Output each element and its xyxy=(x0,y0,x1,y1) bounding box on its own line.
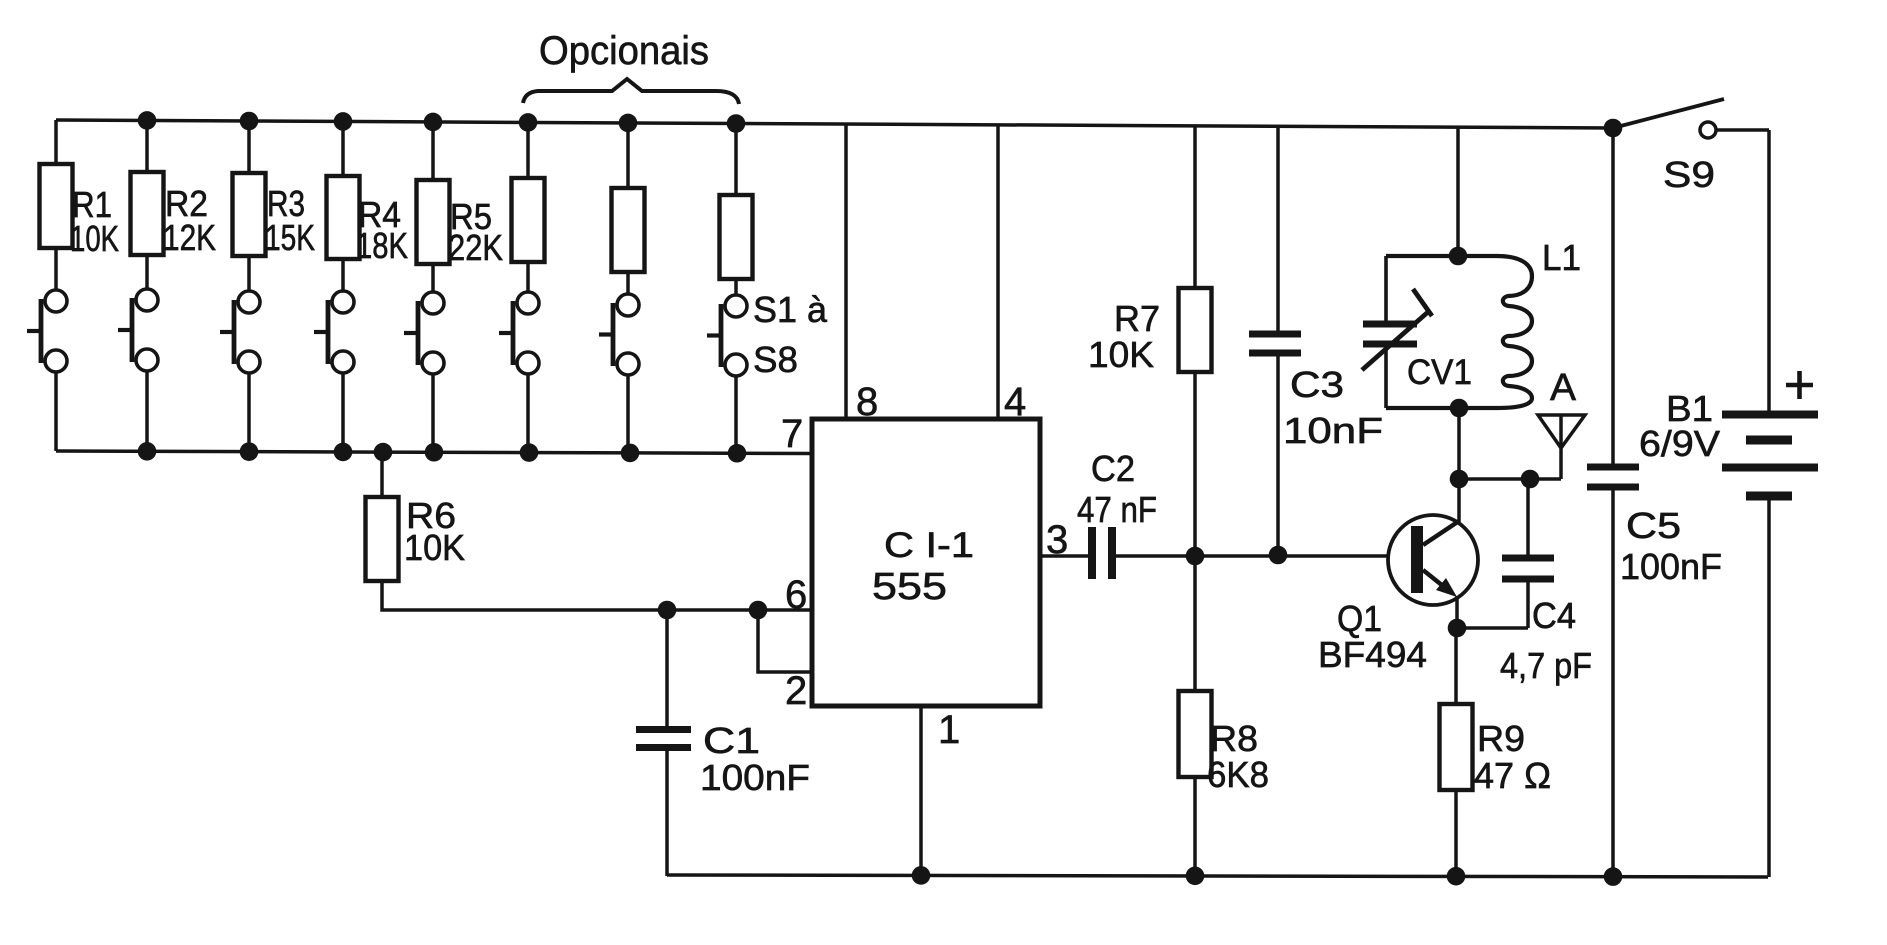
wire C4 top xyxy=(1526,479,1530,556)
label B1 6/9V xyxy=(1639,388,1720,464)
wire C3 to node xyxy=(1276,356,1280,555)
wire switch 2 to common rail xyxy=(145,371,149,451)
antenna A symbol xyxy=(1538,415,1585,479)
svg-text:S1 à: S1 à xyxy=(753,289,828,330)
svg-text:1: 1 xyxy=(938,708,960,752)
svg-text:555: 555 xyxy=(872,566,947,608)
svg-text:C2: C2 xyxy=(1091,448,1135,489)
wire switch 1 to common rail xyxy=(54,372,58,451)
wire battery to ground rail xyxy=(1767,500,1771,877)
svg-text:10K: 10K xyxy=(404,527,465,568)
pin 2 stub wire xyxy=(758,610,812,672)
svg-text:Opcionais: Opcionais xyxy=(539,29,709,73)
svg-text:BF494: BF494 xyxy=(1318,634,1427,675)
wire C4 bottom xyxy=(1526,582,1530,628)
junction dot pin2 tap xyxy=(749,601,768,620)
svg-text:C5: C5 xyxy=(1626,505,1681,546)
svg-text:6/9V: 6/9V xyxy=(1639,423,1720,464)
svg-text:A: A xyxy=(1550,367,1577,409)
junction dot antenna line left xyxy=(1450,470,1469,489)
resistor R3 body xyxy=(233,173,266,256)
junction dot emitter node xyxy=(1448,619,1467,638)
wire top lead column 7 xyxy=(626,123,630,188)
svg-text:C3: C3 xyxy=(1290,364,1344,405)
label CI-1 xyxy=(884,526,974,565)
pushbutton switch S7 xyxy=(599,294,639,375)
svg-text:22K: 22K xyxy=(448,227,503,268)
capacitor C5 plates xyxy=(1587,467,1639,487)
capacitor C4 plates xyxy=(1502,558,1554,579)
label R8 6K8 xyxy=(1207,718,1269,795)
svg-text:C I-1: C I-1 xyxy=(884,526,974,565)
svg-text:18K: 18K xyxy=(356,225,408,266)
pushbutton switch S3 xyxy=(220,291,260,373)
label C3 10nF xyxy=(1283,364,1383,451)
pushbutton switch S5 xyxy=(404,292,444,374)
label Q1 BF494 xyxy=(1318,598,1427,675)
resistor optional column 7 xyxy=(612,188,645,272)
label R4 value xyxy=(356,194,408,266)
pin 8 wire xyxy=(844,124,848,419)
wire R8 to ground xyxy=(1193,777,1197,876)
label R7 10K xyxy=(1088,298,1160,375)
resistor R9 xyxy=(1440,704,1473,790)
svg-text:10K: 10K xyxy=(70,218,119,259)
junction dot C5 ground xyxy=(1604,867,1623,886)
resistor R4 body xyxy=(327,176,360,259)
wire antenna line xyxy=(1459,477,1561,481)
wire tank to collector node xyxy=(1457,408,1461,522)
wire resistor 5 to switch 5 xyxy=(431,264,435,292)
svg-text:100nF: 100nF xyxy=(700,757,810,798)
resistor R1 body xyxy=(40,164,73,248)
svg-text:2: 2 xyxy=(785,669,807,713)
wire switch 3 to common rail xyxy=(247,373,251,452)
label C4 4,7pF xyxy=(1500,595,1592,686)
svg-text:C1: C1 xyxy=(703,720,760,761)
wire rail to R7 xyxy=(1193,126,1197,288)
wire rail to tank xyxy=(1456,127,1460,256)
label R9 47ohm xyxy=(1474,718,1551,796)
wire resistor 4 to switch 4 xyxy=(341,259,345,291)
switch S9 contact xyxy=(1700,122,1716,138)
svg-text:47 Ω: 47 Ω xyxy=(1474,755,1551,796)
label R1 value xyxy=(70,184,119,259)
capacitor C1 plates xyxy=(636,730,691,748)
svg-text:4: 4 xyxy=(1004,380,1026,424)
wire top supply rail xyxy=(56,120,1613,128)
junction dot C3 node xyxy=(1269,546,1288,565)
label CV1 xyxy=(1407,353,1472,392)
label Opcionais xyxy=(539,29,709,73)
wire rail to C5 xyxy=(1611,128,1615,464)
wire rail to C3 xyxy=(1276,126,1280,332)
wire R7 to node xyxy=(1193,372,1197,556)
label R2 value xyxy=(163,183,216,258)
wire switch 6 to common rail xyxy=(526,374,530,453)
svg-text:12K: 12K xyxy=(163,217,216,258)
label C1 100nF xyxy=(700,720,810,798)
pushbutton switch S4 xyxy=(314,291,354,373)
svg-text:R8: R8 xyxy=(1210,718,1258,759)
capacitor C3 plates xyxy=(1249,334,1301,353)
wire resistor 7 to switch 7 xyxy=(626,272,630,294)
pushbutton switch S6 xyxy=(499,292,539,374)
battery plus sign xyxy=(1786,371,1813,399)
junction dot pin1 ground xyxy=(912,866,931,885)
wire top lead column 4 xyxy=(341,121,345,176)
inductor L1 and tank loop xyxy=(1386,256,1532,408)
wire switch 7 to common rail xyxy=(626,375,630,453)
pin 4 wire xyxy=(996,125,1000,419)
pin 7 label xyxy=(781,412,803,456)
brace under Opcionais xyxy=(523,79,739,104)
label R3 value xyxy=(265,183,315,258)
svg-text:C4: C4 xyxy=(1532,595,1576,636)
label C5 100nF xyxy=(1620,505,1722,587)
junction dot tank bottom xyxy=(1450,399,1469,418)
wire resistor 2 to switch 2 xyxy=(145,255,149,289)
svg-text:15K: 15K xyxy=(265,217,315,258)
resistor optional column 6 xyxy=(512,178,545,262)
pushbutton switch S8 xyxy=(707,295,747,376)
resistor optional column 8 xyxy=(720,195,753,279)
junction dot C1 tap xyxy=(658,601,677,620)
resistor R8 xyxy=(1179,691,1212,777)
svg-text:6K8: 6K8 xyxy=(1207,754,1269,795)
variable capacitor CV1 arrow xyxy=(1362,289,1432,370)
wire emitter node to C4 xyxy=(1457,626,1528,630)
pin 3 label xyxy=(1046,518,1068,562)
wire C2 to Q1 base xyxy=(1112,554,1411,558)
wire top lead column 2 xyxy=(145,120,149,172)
svg-text:CV1: CV1 xyxy=(1407,353,1472,392)
svg-text:Q1: Q1 xyxy=(1337,598,1382,639)
wire switch 4 to common rail xyxy=(341,373,345,452)
svg-text:3: 3 xyxy=(1046,518,1068,562)
label C2 47nF xyxy=(1077,448,1157,530)
wire switch common rail to pin 7 xyxy=(56,451,812,454)
op-amp U1 CI-1 555 box xyxy=(812,419,1040,706)
label S9 xyxy=(1663,154,1715,195)
resistor R6 xyxy=(366,497,399,581)
label A xyxy=(1550,367,1577,409)
pin 3 stub wire xyxy=(1040,554,1088,558)
junction dot R9 ground xyxy=(1447,867,1466,886)
wire C1 to ground rail xyxy=(665,751,669,876)
pin 2 label xyxy=(785,669,807,713)
svg-text:R9: R9 xyxy=(1477,718,1525,759)
svg-text:S9: S9 xyxy=(1663,154,1715,195)
label 555 xyxy=(872,566,947,608)
svg-text:L1: L1 xyxy=(1542,237,1581,278)
pushbutton switch S1 xyxy=(27,290,67,372)
label R6 10K xyxy=(404,495,465,568)
svg-text:10K: 10K xyxy=(1088,334,1154,375)
wire node to R8 xyxy=(1193,556,1197,691)
svg-text:6: 6 xyxy=(785,573,807,617)
wire top lead column 5 xyxy=(431,122,435,180)
wire resistor 1 to switch 1 xyxy=(54,248,58,290)
wire battery top xyxy=(1767,130,1771,411)
wire top lead column 3 xyxy=(247,121,251,173)
svg-text:100nF: 100nF xyxy=(1620,546,1722,587)
junction dots top rail (columns) xyxy=(138,111,746,133)
svg-text:8: 8 xyxy=(856,380,878,424)
resistor R5 body xyxy=(417,180,450,264)
svg-text:S8: S8 xyxy=(753,339,798,380)
label R5 value xyxy=(448,196,503,268)
svg-text:7: 7 xyxy=(781,412,803,456)
junction dot R7-R8 node xyxy=(1186,547,1205,566)
wire pin6 line to C1 xyxy=(665,610,669,726)
junction dots switch rail xyxy=(138,442,747,463)
svg-text:47 nF: 47 nF xyxy=(1077,489,1157,530)
wire rail to R6 xyxy=(380,453,384,498)
pushbutton switch S2 xyxy=(118,289,158,371)
junction dot tank top xyxy=(1449,247,1468,266)
capacitor C2 plates xyxy=(1092,527,1112,579)
svg-text:4,7 pF: 4,7 pF xyxy=(1500,645,1592,686)
resistor R7 xyxy=(1179,288,1212,372)
wire R6 to pin 6 line xyxy=(382,581,812,610)
variable capacitor CV1 plates xyxy=(1363,324,1417,344)
wire ground rail xyxy=(667,875,1768,877)
wire resistor 3 to switch 3 xyxy=(247,256,251,291)
wire top lead column 1 xyxy=(54,120,58,164)
transistor Q1 body xyxy=(1388,515,1478,628)
wire switch 8 to common rail xyxy=(734,376,738,453)
wire resistor 8 to switch 8 xyxy=(734,279,738,295)
battery B1 plates xyxy=(1722,415,1818,497)
pin 6 label xyxy=(785,573,807,617)
label S1 a S8 xyxy=(753,289,828,380)
resistor R2 body xyxy=(131,172,164,255)
svg-text:10nF: 10nF xyxy=(1283,410,1383,451)
pin 8 label xyxy=(856,380,878,424)
label L1 xyxy=(1542,237,1581,278)
junction dot C5 top xyxy=(1604,119,1623,138)
wire switch 5 to common rail xyxy=(431,374,435,452)
wire C5 to ground xyxy=(1611,490,1615,877)
svg-text:R7: R7 xyxy=(1114,298,1160,339)
junction dot R8 ground xyxy=(1186,867,1205,886)
pin 1 wire xyxy=(919,706,923,876)
wire R9 to ground xyxy=(1454,790,1458,876)
wire top lead column 6 xyxy=(526,122,530,178)
wire S9 to battery xyxy=(1716,128,1769,132)
wire resistor 6 to switch 6 xyxy=(526,262,530,292)
switch S9 arm xyxy=(1613,99,1724,128)
junction dot C4 top node xyxy=(1521,470,1540,489)
wire top lead column 8 xyxy=(734,123,738,195)
wire emitter to R9 xyxy=(1454,628,1458,704)
pin 1 label xyxy=(938,708,960,752)
pin 4 label xyxy=(1004,380,1026,424)
